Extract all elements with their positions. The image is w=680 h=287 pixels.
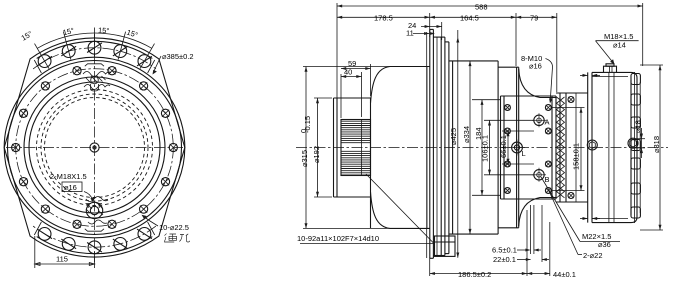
svg-text:⌀315: ⌀315 — [300, 150, 309, 167]
front view 10 mounting holes d22.5 on d385 BCD — [38, 55, 51, 68]
svg-text:158±0.1: 158±0.1 — [571, 143, 580, 170]
M18 filler plug on rear cover top — [604, 66, 617, 72]
svg-text:588: 588 — [475, 3, 488, 12]
front view hidden circle 1 (dashed) — [37, 90, 153, 206]
front view top breakout detail at 12 o'clock — [83, 72, 111, 77]
svg-text:10-92a11×102F7×14d10: 10-92a11×102F7×14d10 — [297, 234, 379, 243]
dimension 186.5+-0.2 — [429, 258, 431, 276]
dimension 588 — [336, 3, 338, 110]
front view spigot circle d315 — [24, 77, 165, 218]
dimension 79 — [556, 13, 558, 92]
mid hex plug on centerline — [587, 140, 597, 150]
svg-text:15°: 15° — [98, 26, 110, 36]
svg-text:178.5: 178.5 — [374, 14, 393, 23]
dimension 22+-0.1 — [541, 205, 543, 262]
distributor casting curve top — [519, 69, 556, 98]
front view crankcase body inner circle — [8, 61, 182, 235]
svg-text:A: A — [545, 118, 550, 127]
svg-text:⌀18: ⌀18 — [634, 120, 643, 133]
svg-text:11: 11 — [406, 29, 414, 38]
dimension 44+-0.1 — [549, 222, 551, 276]
svg-text:115: 115 — [56, 255, 68, 264]
front view horizontal centerline — [6, 147, 183, 149]
dimension 40 — [361, 72, 363, 117]
svg-text:66±0.1: 66±0.1 — [499, 135, 508, 158]
rear cover bolt rects — [630, 80, 632, 215]
svg-text:B: B — [545, 175, 550, 184]
flange bottom lug section — [435, 236, 456, 256]
8-M10 bolt holes on port face — [505, 105, 511, 111]
port B — [534, 170, 544, 180]
front view hidden circle 2 (dashed) — [41, 94, 148, 201]
svg-text:186.5±0.2: 186.5±0.2 — [458, 270, 491, 279]
brake housing section — [559, 93, 561, 202]
svg-text:⌀16: ⌀16 — [64, 183, 77, 192]
port A — [534, 115, 544, 125]
dimension d318 — [659, 65, 661, 230]
dimension 24 — [441, 22, 443, 40]
distributor casting curve bottom — [519, 198, 556, 227]
dimension d425 — [457, 30, 459, 258]
front view housing assembly bolts ring — [108, 67, 116, 75]
dimension 184 — [481, 100, 483, 196]
svg-text:⌀385±0.2: ⌀385±0.2 — [162, 52, 194, 61]
svg-text:10-⌀22.5: 10-⌀22.5 — [159, 223, 189, 232]
dimension 158+-0.1 — [580, 108, 582, 191]
dimension 11 — [413, 33, 429, 35]
dimension 66+-0.1 — [507, 131, 509, 164]
front view hidden circle 3 (dashed) — [45, 98, 145, 198]
svg-text:⌀36: ⌀36 — [598, 240, 611, 249]
svg-text:⌀16: ⌀16 — [529, 62, 542, 71]
wheel hub drum d315.5 — [370, 98, 372, 228]
cam ring housing block — [448, 42, 450, 254]
front view angular extension lines — [35, 44, 50, 69]
rear cover body — [587, 72, 589, 222]
svg-text:⌀334: ⌀334 — [462, 126, 471, 143]
brake spring section zigzag — [557, 97, 565, 198]
wheel flange plate d425 — [426, 32, 428, 258]
svg-text:⌀318: ⌀318 — [652, 136, 661, 153]
front view angular dimension arcs — [37, 37, 65, 48]
front view center hole — [90, 143, 99, 152]
dimension d18 — [641, 128, 643, 158]
dimension 6.5+-0.1 — [530, 205, 532, 254]
dimension 164.5 — [515, 13, 517, 66]
front view flange ear inner edges — [37, 41, 153, 58]
svg-text:106±0.1: 106±0.1 — [481, 135, 490, 162]
svg-text:79: 79 — [530, 14, 538, 23]
svg-text:6.5±0.1: 6.5±0.1 — [492, 246, 517, 255]
rear hex plug — [628, 138, 638, 148]
svg-text:2-M18X1.5: 2-M18X1.5 — [50, 172, 87, 181]
internal spline 10-92a11x102F7x14d10 — [341, 120, 371, 176]
svg-text:40: 40 — [344, 68, 352, 77]
rear cover lip arrows bottom — [583, 217, 588, 220]
svg-text:⌀425: ⌀425 — [449, 128, 458, 145]
front view vertical centerline — [94, 34, 96, 262]
dimension 178.5 — [429, 13, 431, 37]
front view rim tab at 6 o'clock — [85, 229, 104, 231]
front view pilot circle — [29, 82, 160, 213]
dimension d192 — [314, 97, 332, 99]
front view bottom plug detail at 6 o'clock — [86, 202, 102, 218]
brake housing bolts — [568, 97, 574, 103]
svg-text:⌀192: ⌀192 — [312, 146, 321, 163]
front view rim tab at 12 o'clock — [85, 64, 104, 66]
svg-text:44±0.1: 44±0.1 — [553, 270, 576, 279]
svg-text:L: L — [522, 149, 526, 158]
front view crankcase body circle — [4, 57, 185, 238]
front view housing outer outline — [4, 38, 185, 257]
front view mounting bolt circle d385 centerline arcs — [33, 48, 156, 69]
rear cover lip arrows top — [583, 74, 588, 77]
svg-text:164.5: 164.5 — [460, 14, 479, 23]
svg-text:22±0.1: 22±0.1 — [493, 255, 516, 264]
port face block — [500, 96, 502, 199]
dimension 106+-0.1 — [489, 120, 491, 175]
svg-text:2-⌀22: 2-⌀22 — [583, 251, 603, 260]
dimension d315.5 h8 — [303, 66, 398, 68]
svg-text:-0.15: -0.15 — [303, 116, 312, 133]
distributor front plate — [516, 67, 518, 228]
dimension 115 — [34, 236, 36, 268]
svg-text:⌀14: ⌀14 — [613, 41, 626, 50]
port L drain — [512, 142, 523, 153]
dimension d334 — [469, 61, 471, 234]
front view bolt circle centerline — [16, 69, 174, 227]
dimension 59 — [340, 74, 342, 118]
side view main axis centerline — [296, 147, 668, 149]
label spline spec 10-92a11x102F7x14d10 — [366, 174, 434, 244]
hub boss face d192 — [333, 98, 335, 197]
